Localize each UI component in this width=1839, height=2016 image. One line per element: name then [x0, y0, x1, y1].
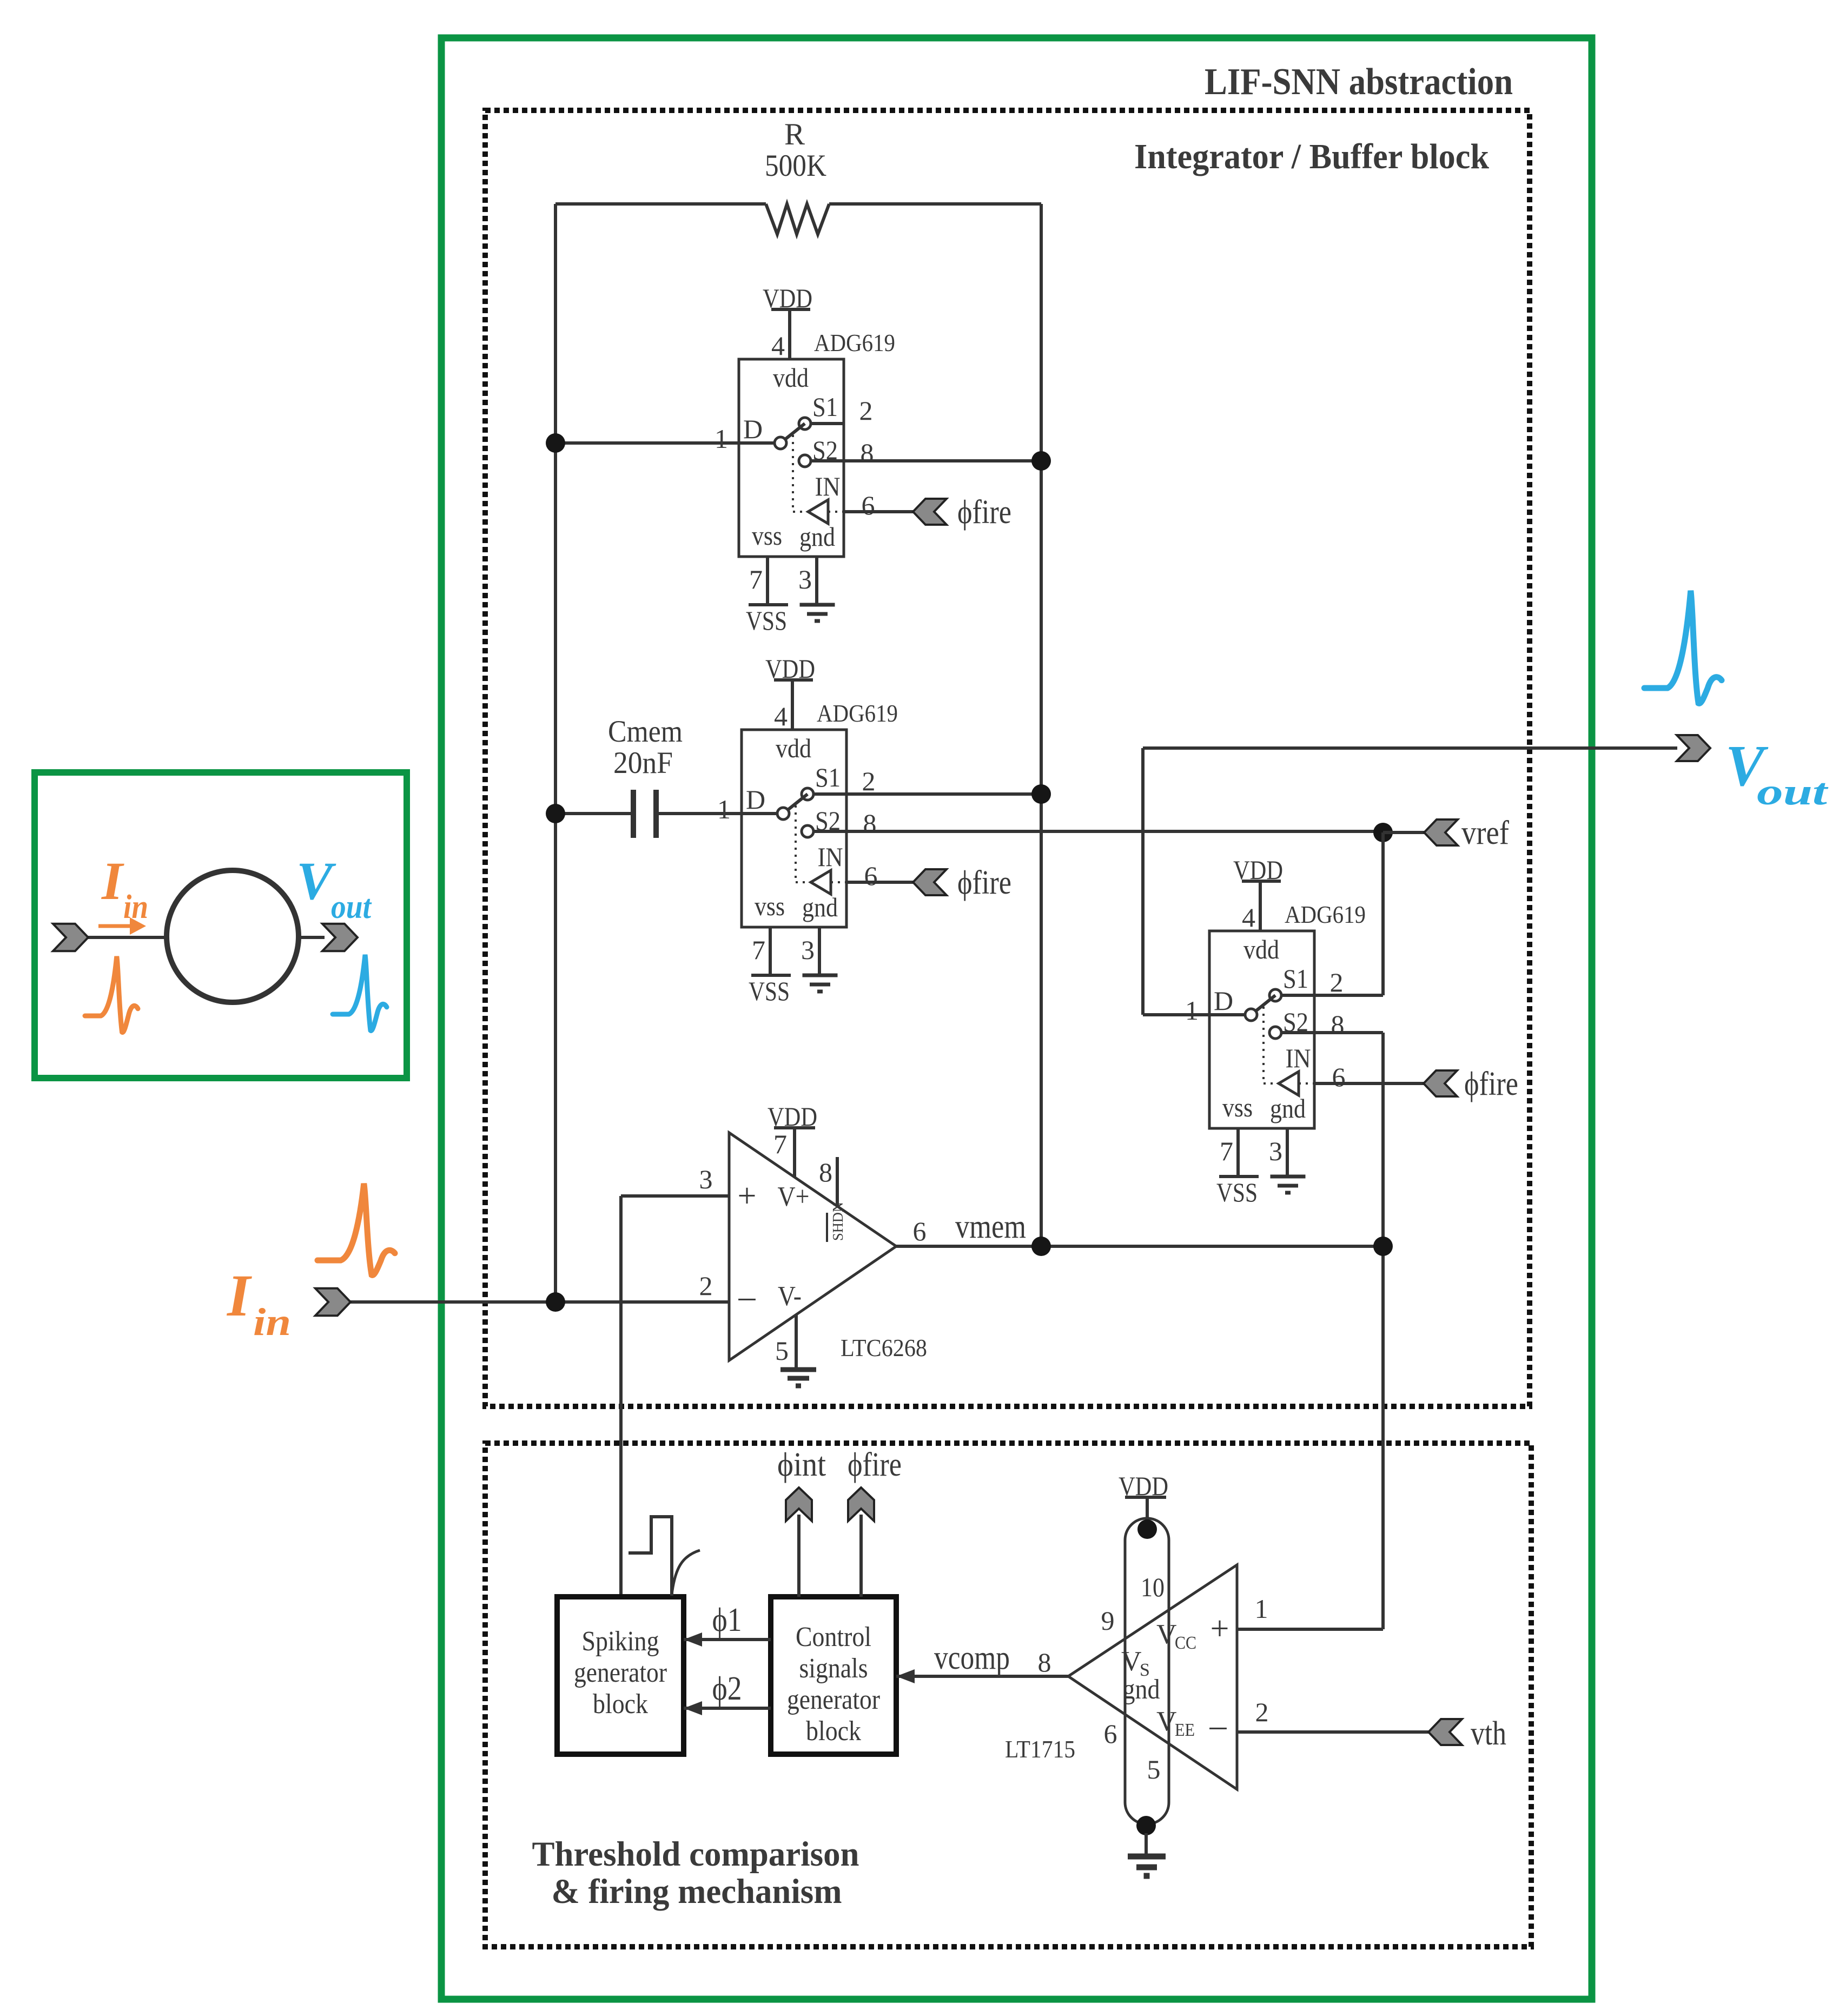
orange spike small: [85, 956, 138, 1032]
svg-text:5: 5: [1147, 1754, 1161, 1784]
wire SW3 pin8 down: [1314, 1031, 1383, 1034]
Spiking generator block: [557, 1597, 684, 1754]
svg-text:20nF: 20nF: [613, 746, 673, 780]
phi-fire port arrow SW1: [913, 499, 947, 525]
svg-text:8: 8: [863, 808, 877, 838]
svg-text:6: 6: [913, 1216, 927, 1246]
wire SW1 pin1 to left rail: [555, 441, 739, 445]
switch SW3 ADG619 box: [1209, 931, 1314, 1128]
resistor R 500K zigzag: [766, 204, 829, 234]
svg-text:8: 8: [1331, 1009, 1345, 1040]
svg-text:LTC6268: LTC6268: [841, 1334, 927, 1361]
svg-text:IN: IN: [818, 842, 843, 872]
svg-text:ϕfire: ϕfire: [848, 1446, 902, 1483]
op-amp pin2 wire (Iin): [350, 1300, 729, 1304]
svg-text:VSS: VSS: [1216, 1177, 1258, 1207]
SW1 pin 4 wire: [788, 309, 791, 359]
svg-text:–: –: [1209, 1707, 1227, 1744]
LIF-SNN abstraction outer green frame: [441, 38, 1592, 1999]
svg-text:vss: vss: [755, 891, 785, 921]
junction dot rail bottom: [1136, 1816, 1156, 1835]
phi-fire port arrow SW2: [913, 869, 947, 895]
junction dot left rail / Cmem: [546, 804, 565, 823]
phi-fire port arrow SW3: [1424, 1070, 1457, 1096]
wire Vout corner to SW3 D: [1143, 1013, 1209, 1016]
svg-text:2: 2: [699, 1271, 713, 1301]
junction dot vmem / comparator line: [1373, 1237, 1393, 1256]
svg-text:7: 7: [749, 564, 763, 594]
svg-text:1: 1: [1185, 995, 1199, 1026]
vref port arrow: [1424, 819, 1458, 845]
svg-text:LIF-SNN abstraction: LIF-SNN abstraction: [1205, 61, 1513, 103]
svg-text:Control: Control: [796, 1622, 871, 1653]
SW3 pin 4 wire: [1259, 881, 1262, 931]
svg-text:I: I: [101, 851, 124, 911]
svg-text:out: out: [331, 889, 372, 926]
svg-text:SHDN: SHDN: [830, 1202, 846, 1241]
svg-text:1: 1: [717, 794, 731, 824]
svg-text:vdd: vdd: [1243, 934, 1279, 964]
svg-text:8: 8: [861, 438, 874, 468]
svg-text:out: out: [1757, 771, 1829, 813]
svg-text:5: 5: [775, 1336, 789, 1366]
svg-text:ϕ1: ϕ1: [712, 1602, 742, 1638]
spike pulse symbol: [629, 1517, 672, 1596]
svg-text:V: V: [296, 851, 336, 911]
svg-text:ϕfire: ϕfire: [957, 494, 1011, 531]
Iin orange arrow: [98, 924, 134, 928]
svg-text:V: V: [1156, 1619, 1177, 1650]
SW3 IN driver: [1262, 1007, 1265, 1083]
svg-text:ϕ2: ϕ2: [712, 1670, 742, 1707]
junction dot vref: [1373, 823, 1393, 842]
op-amp pin3 wire: [621, 1194, 729, 1198]
svg-text:Cmem: Cmem: [608, 715, 683, 749]
neuron circle symbol: [167, 870, 299, 1002]
op-amp U1 LTC6268 triangle: [729, 1133, 896, 1360]
svg-text:7: 7: [773, 1129, 787, 1159]
svg-text:block: block: [593, 1689, 648, 1720]
svg-text:6: 6: [1104, 1718, 1117, 1749]
svg-text:gnd: gnd: [1270, 1093, 1306, 1123]
svg-text:vdd: vdd: [773, 362, 809, 393]
SW2 pin 3 ground: [818, 927, 821, 975]
neuron output arrow: [322, 924, 358, 951]
svg-text:2: 2: [1255, 1697, 1269, 1727]
svg-text:vmem: vmem: [955, 1208, 1026, 1245]
svg-text:ADG619: ADG619: [1285, 901, 1366, 928]
phi1 wire: [684, 1638, 771, 1641]
svg-text:in: in: [123, 889, 148, 926]
svg-text:signals: signals: [799, 1653, 868, 1684]
junction dot left rail / SW1 D: [546, 433, 565, 453]
svg-text:V: V: [1156, 1706, 1177, 1737]
svg-text:ADG619: ADG619: [817, 699, 898, 727]
comparator ground: [1145, 1833, 1148, 1855]
wire SW2 pin2 to right rail: [846, 792, 1041, 796]
svg-text:generator: generator: [574, 1657, 667, 1688]
SW3 pin 7 VSS: [1236, 1128, 1240, 1176]
svg-text:6: 6: [862, 490, 875, 520]
wire SW2 pin6 phi-fire: [846, 881, 913, 884]
svg-text:gnd: gnd: [799, 521, 835, 552]
svg-text:D: D: [743, 414, 763, 444]
svg-text:S1: S1: [815, 762, 841, 792]
svg-text:2: 2: [859, 395, 873, 426]
svg-text:vss: vss: [752, 520, 782, 551]
svg-text:6: 6: [864, 861, 878, 891]
svg-text:–: –: [738, 1278, 756, 1315]
svg-text:IN: IN: [815, 471, 841, 501]
svg-text:Integrator / Buffer block: Integrator / Buffer block: [1134, 137, 1489, 176]
op-amp pin5 ground: [795, 1314, 798, 1368]
svg-text:EE: EE: [1175, 1720, 1195, 1740]
svg-text:vcomp: vcomp: [934, 1640, 1010, 1676]
wire left vertical rail: [554, 204, 557, 1302]
junction dot Iin / left rail: [546, 1292, 565, 1312]
SW1 pin 3 ground: [815, 557, 818, 605]
svg-text:2: 2: [862, 766, 876, 796]
blue spike output: [1644, 591, 1722, 703]
svg-text:generator: generator: [787, 1684, 880, 1715]
wire Vout horizontal: [1143, 746, 1677, 750]
svg-text:Threshold comparison: Threshold comparison: [532, 1835, 859, 1874]
wire feedback loop top-right: [829, 202, 1041, 206]
neuron input arrow: [53, 924, 88, 951]
neuron abstraction green box: [35, 772, 407, 1078]
svg-text:VSS: VSS: [746, 605, 787, 636]
phi2 wire: [684, 1707, 771, 1710]
wire pin3 down to spiking block: [619, 1196, 623, 1597]
Integrator / Buffer block dashed border: [485, 110, 1530, 1406]
op-amp pin6 vmem wire: [896, 1245, 1383, 1248]
svg-text:500K: 500K: [765, 149, 826, 183]
SW3 pin 3 ground: [1286, 1128, 1289, 1176]
junction dot VDD rail top: [1137, 1519, 1157, 1539]
svg-text:V+: V+: [778, 1181, 810, 1212]
SW1 pin 7 VSS: [766, 557, 769, 605]
vcomp wire: [896, 1675, 1068, 1678]
svg-text:3: 3: [798, 564, 812, 594]
svg-text:8: 8: [1038, 1647, 1051, 1677]
wire vref stub: [1383, 831, 1424, 834]
SW1 IN driver: [792, 435, 794, 512]
svg-text:in: in: [253, 1300, 291, 1344]
svg-text:7: 7: [1220, 1136, 1233, 1166]
svg-text:4: 4: [774, 701, 788, 731]
svg-text:+: +: [738, 1178, 757, 1214]
switch SW2 ADG619 box: [742, 730, 846, 927]
Iin port arrow: [315, 1288, 350, 1316]
svg-text:VSS: VSS: [749, 976, 790, 1006]
svg-text:& firing mechanism: & firing mechanism: [552, 1872, 842, 1911]
svg-text:1: 1: [1255, 1594, 1268, 1624]
svg-text:CC: CC: [1175, 1633, 1196, 1653]
wire SW2 pin8 vref line: [846, 830, 1383, 833]
svg-text:2: 2: [1330, 967, 1344, 997]
svg-text:vref: vref: [1461, 815, 1509, 851]
comparator pin2 wire vth: [1237, 1730, 1428, 1734]
junction dot vmem / right rail: [1031, 1237, 1051, 1256]
orange spike input: [317, 1184, 395, 1275]
comparator supply rail box: [1125, 1518, 1169, 1824]
comparator U2 LT1715 triangle: [1068, 1565, 1237, 1789]
svg-text:vdd: vdd: [776, 733, 811, 763]
blue spike small: [333, 955, 387, 1030]
svg-text:3: 3: [1269, 1136, 1282, 1166]
svg-text:R: R: [784, 117, 805, 151]
SW2 IN driver: [795, 805, 797, 882]
op-amp pin8 SHDN: [836, 1157, 839, 1206]
svg-text:S1: S1: [812, 392, 838, 422]
junction dot right rail / SW1 S2: [1031, 451, 1051, 471]
wire SW3 pin6 phi-fire: [1314, 1082, 1424, 1085]
svg-text:vss: vss: [1222, 1092, 1253, 1122]
svg-text:10: 10: [1141, 1572, 1165, 1602]
wire right vertical rail: [1040, 204, 1043, 1246]
svg-text:ϕfire: ϕfire: [957, 864, 1011, 901]
svg-text:4: 4: [771, 331, 785, 361]
svg-text:1: 1: [715, 424, 728, 454]
svg-text:D: D: [746, 784, 765, 815]
svg-text:block: block: [806, 1716, 861, 1747]
neuron output wire: [299, 936, 325, 939]
SW2 pin 4 wire: [791, 680, 794, 730]
Control signals generator block: [771, 1597, 896, 1754]
vth port arrow: [1428, 1719, 1462, 1745]
svg-text:3: 3: [801, 935, 815, 965]
svg-text:ϕfire: ϕfire: [1464, 1066, 1518, 1102]
svg-text:I: I: [226, 1263, 252, 1328]
svg-text:V-: V-: [778, 1281, 802, 1312]
svg-text:S1: S1: [1283, 963, 1308, 994]
junction dot right rail / SW2 S1: [1031, 784, 1051, 804]
svg-text:D: D: [1214, 986, 1233, 1016]
wire SW1 pin6 phi-fire: [844, 510, 913, 513]
wire feedback loop top-left: [555, 202, 766, 206]
svg-text:ϕint: ϕint: [777, 1446, 826, 1483]
svg-text:LT1715: LT1715: [1005, 1735, 1075, 1763]
SW2 pin 7 VSS: [769, 927, 772, 975]
svg-text:gnd: gnd: [802, 892, 838, 922]
svg-text:IN: IN: [1286, 1043, 1311, 1073]
comparator pin1 wire: [1237, 1628, 1383, 1631]
svg-text:7: 7: [752, 935, 765, 965]
switch SW1 ADG619 box: [739, 359, 844, 557]
svg-text:+: +: [1210, 1610, 1229, 1647]
Vout port arrow: [1677, 735, 1710, 761]
svg-text:6: 6: [1332, 1062, 1346, 1092]
wire SW3 pin2 up to vref: [1314, 994, 1383, 997]
svg-text:vth: vth: [1471, 1715, 1506, 1752]
svg-text:8: 8: [819, 1157, 832, 1187]
svg-text:9: 9: [1101, 1605, 1115, 1636]
svg-text:ADG619: ADG619: [814, 329, 895, 356]
svg-text:Spiking: Spiking: [582, 1626, 659, 1657]
svg-text:4: 4: [1242, 902, 1255, 933]
svg-text:3: 3: [699, 1164, 713, 1194]
wire SW1 pin8 to right rail: [844, 459, 1041, 462]
svg-text:gnd: gnd: [1123, 1674, 1160, 1705]
neuron input wire: [87, 936, 167, 939]
Threshold comparison dashed border: [485, 1443, 1531, 1947]
